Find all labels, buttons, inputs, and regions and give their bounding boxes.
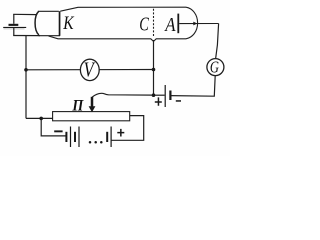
- wire filament top: [13, 13, 37, 15]
- grid C dashed electrode: [153, 9, 155, 38]
- tube envelope top: [60, 7, 186, 11]
- label minus (anode battery): [176, 100, 181, 102]
- tube neck bottom wall: [39, 35, 60, 37]
- filament battery GB1 top plate: [9, 24, 19, 26]
- slider wire to grid node: [92, 93, 153, 97]
- galvanometer G: [207, 59, 224, 76]
- battery bank ellipsis dots: [89, 141, 92, 144]
- cathode heater arc: [35, 11, 39, 35]
- potentiometer resistive body: [53, 112, 130, 121]
- tube neck top wall: [38, 10, 59, 12]
- tube envelope right dome: [186, 7, 198, 39]
- envelope seal blob: [193, 22, 197, 26]
- label plus (battery bank): [117, 129, 124, 137]
- battery bank cellN short plate: [106, 132, 108, 142]
- svg-text:C: C: [139, 12, 149, 35]
- battery bank cell1 short plate: [65, 132, 67, 142]
- slider arrow: [91, 97, 94, 108]
- battery bank cell2 short plate: [74, 132, 76, 142]
- wire down to battery bank: [41, 118, 65, 135]
- left vertical wire: [25, 36, 27, 119]
- wire G to bottom: [171, 76, 216, 97]
- tube envelope bottom with grid-lead notch: [49, 36, 187, 41]
- svg-text:П: П: [71, 98, 84, 115]
- battery bank cell2 long plate: [78, 127, 79, 148]
- cathode plate K: [59, 11, 61, 36]
- voltmeter wire: [26, 69, 154, 71]
- wire battery bottom lead: [13, 28, 15, 36]
- scan hatch under plate: [4, 27, 25, 30]
- svg-text:K: K: [62, 13, 75, 34]
- wire filament bottom: [13, 35, 40, 37]
- battery bank cell1 long plate: [70, 127, 71, 148]
- node grid/V junction: [152, 68, 156, 72]
- wire bank plus to potentiometer right: [111, 116, 144, 141]
- svg-text:A: A: [163, 14, 176, 37]
- wire right branch down to G: [216, 24, 219, 59]
- anode battery long plate (+): [165, 85, 166, 107]
- wire to potentiometer left: [26, 117, 53, 119]
- voltmeter V: [80, 59, 99, 80]
- node left/V junction: [24, 68, 28, 72]
- grid lead wire: [153, 40, 155, 95]
- anode plate A: [177, 14, 179, 34]
- node grid/battery junction: [152, 93, 156, 97]
- wire battery top lead: [13, 14, 15, 23]
- filament battery GB1 bottom plate: [3, 27, 26, 28]
- node potentiometer/bank junction: [39, 117, 43, 121]
- anode lead wire: [179, 23, 218, 25]
- label minus (battery bank): [54, 130, 62, 132]
- svg-text:G: G: [210, 59, 219, 77]
- label plus (anode battery): [155, 97, 162, 105]
- battery bank cellN long plate: [111, 127, 112, 148]
- wire battery to grid node: [154, 94, 165, 96]
- anode battery short plate (-): [169, 91, 171, 101]
